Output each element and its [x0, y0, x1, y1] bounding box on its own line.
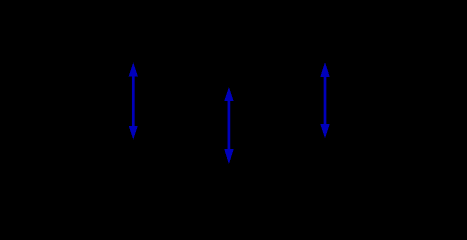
arrow A2 (middle double-headed vertical arrow) — [224, 87, 233, 164]
arrow A1 (left double-headed vertical arrow) — [129, 63, 138, 140]
arrow A3 (right double-headed vertical arrow) — [320, 62, 329, 138]
